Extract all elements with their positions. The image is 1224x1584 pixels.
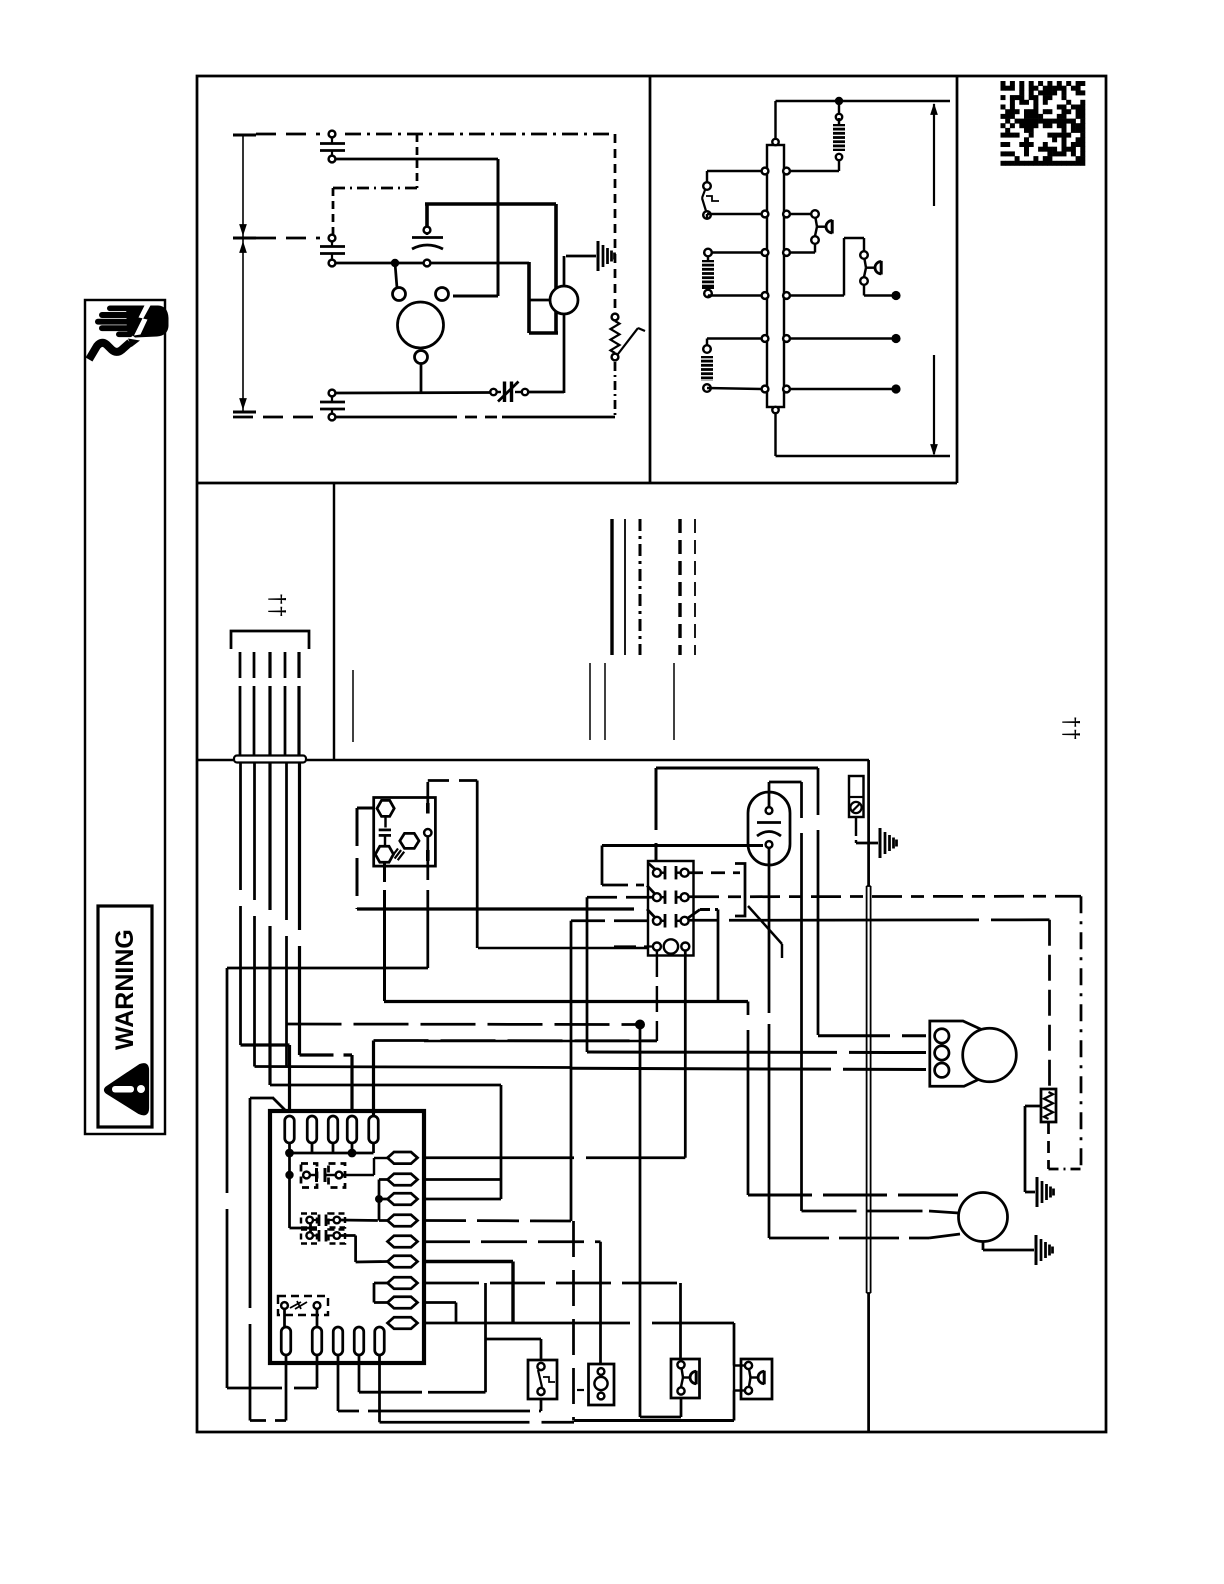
terminal T1 top — [329, 131, 336, 138]
dimension arrow lower (panel B) — [933, 355, 935, 454]
defrost stat drop (long) — [639, 1025, 642, 1418]
K2 lower output to hexagon 6 — [340, 1234, 356, 1237]
hexagon connector 8 — [388, 1297, 418, 1309]
field wiring dashed rail mid (L2) — [256, 237, 320, 240]
herm riser down to fan wire 2 — [800, 782, 803, 818]
legend sample: factory power solid thick — [610, 519, 613, 655]
contactor pole 3 — [653, 917, 661, 925]
pole2 left wire to compressor riser — [587, 896, 652, 899]
wire bundle collar — [234, 756, 306, 763]
pole2 right long dashed run — [689, 895, 1081, 898]
left branch: coil 2 — [707, 337, 761, 339]
wire bus top to L line — [774, 101, 776, 139]
switch A top riser — [540, 1339, 543, 1360]
T5 riser to low voltage dashed feed — [372, 1041, 375, 1117]
pole3 right stub to fan feed riser — [700, 908, 718, 911]
board terminal stadium T3 — [328, 1116, 338, 1143]
hexagon left bus 2-3-4 — [378, 1180, 381, 1221]
legend sample: field power dashed thick — [678, 519, 681, 655]
board bottom stadium B1 — [281, 1327, 291, 1355]
module pin circle right — [424, 829, 431, 836]
right wire row 6 — [790, 388, 893, 390]
dashed drop from module left — [356, 808, 359, 909]
compressor terminal box — [930, 1021, 988, 1086]
wire5 elbow to board T4 riser — [300, 1053, 353, 1056]
horizontal divider below middle band — [197, 759, 869, 761]
jumper to bottom terminals — [283, 1309, 286, 1327]
compressor mid riser — [586, 897, 589, 1052]
thermostat wires dashed (5) — [239, 652, 242, 695]
condenser fan motor circle — [959, 1193, 1008, 1242]
fan wire 3 — [769, 1237, 929, 1240]
wire4 branch dashed to defrost stat junction — [287, 1023, 639, 1026]
coil right drop to board hexagon 1 — [684, 951, 687, 1158]
WARNING label box — [98, 906, 152, 1127]
heater left tap wire — [1025, 1105, 1041, 1108]
relay K1 contact bars — [310, 1174, 317, 1176]
linkage actuator diagonal — [748, 906, 782, 944]
B3 wire to switch A — [337, 1355, 340, 1411]
pole3 left wire — [571, 919, 652, 922]
capacitor symbol on L1 lead — [320, 142, 345, 145]
drop to pole1 — [655, 768, 658, 830]
module left lead — [357, 807, 373, 810]
B1 wire to bottom left loop — [285, 1355, 288, 1421]
capillary top single — [867, 760, 870, 886]
switch C bottom riser — [680, 1398, 683, 1417]
contactor box — [648, 861, 694, 956]
hexagon connector 4 — [388, 1215, 418, 1227]
panel divider vertical between top-left and top-right panels — [649, 76, 652, 483]
dash-dot rail continuing right at top — [345, 133, 612, 136]
hexagon 8 wire — [424, 1301, 456, 1304]
board top-left corner diagonal entry — [273, 1098, 287, 1112]
board bottom stadium B4 — [354, 1327, 364, 1355]
compressor top wire — [818, 1034, 926, 1037]
contactor top right riser to compressor top — [817, 768, 820, 815]
junction node defrost stat — [635, 1020, 645, 1030]
defrost stat contacts on bottom rail — [490, 389, 496, 395]
wire riser to contactor coil — [478, 947, 648, 949]
hexagon 6 wire thick — [424, 1260, 513, 1263]
hexagon 9 long wire — [424, 1322, 630, 1325]
wire3 elbow to hexagon bus riser — [270, 1084, 501, 1087]
capacitor symbol on L2 lead — [320, 245, 345, 248]
middle band divider vertical — [333, 483, 335, 760]
relay K1 contact right cell — [329, 1164, 346, 1188]
data matrix code — [1001, 81, 1086, 166]
left branch: coil 1 — [708, 251, 761, 253]
wire T1-lead down to motor NE terminal — [497, 159, 500, 296]
switch C (high pressure) box — [671, 1359, 700, 1398]
legend column rule short — [352, 670, 354, 742]
B4 wire to riser — [358, 1355, 361, 1392]
horizontal divider below top panels — [197, 482, 957, 485]
ground symbol (heater) — [1036, 1177, 1039, 1207]
coil left wire dashed stub — [614, 945, 652, 947]
corner down to right dashed branch — [614, 134, 617, 314]
low voltage dashed feed wire — [374, 1039, 657, 1042]
fan ground lead — [982, 1242, 985, 1250]
field wiring dashed rail top (L1) — [256, 133, 320, 136]
right branch: pressure switch 1 — [790, 213, 815, 215]
ground symbol fan motor — [566, 255, 596, 258]
pole 3 arm — [647, 909, 655, 918]
fan motor (panel A) — [550, 286, 578, 314]
contactor coil — [653, 943, 661, 951]
thermostat wire bundle bracket — [231, 631, 309, 649]
fuse holder box — [849, 776, 864, 817]
thermostat wire 2 down — [253, 763, 256, 1067]
relay K1 contact left cell — [301, 1164, 317, 1188]
pole 1 arm — [648, 863, 656, 870]
defrost jumper box — [278, 1296, 328, 1315]
coil left drop to board bus — [656, 951, 658, 1041]
module edge pin ticks — [426, 803, 430, 814]
hexagon connector 5 — [388, 1236, 418, 1248]
junction node top — [835, 97, 843, 105]
dash-dot jumper L1 to mid terminal — [416, 134, 419, 188]
motor S terminal to bottom rail — [420, 363, 423, 393]
capillary double line — [866, 886, 868, 1293]
cap bottom lead down (fan wire 3 riser) — [768, 848, 771, 1013]
fuse circle with slash — [850, 802, 861, 813]
wire from T1 to motor run winding — [335, 158, 498, 161]
fan wire 1 — [747, 1002, 750, 1016]
pole 3 right arm — [688, 910, 700, 919]
K2 upper output to hexagon bus — [340, 1219, 378, 1222]
hexagon connector 2 — [388, 1174, 418, 1186]
cap top lead loop — [768, 792, 771, 807]
heater bottom dashed drop — [1047, 1122, 1050, 1169]
start/run capacitor (polarized) — [424, 227, 431, 234]
B5 wire bottom run — [378, 1355, 381, 1422]
pole3 right run to heater — [689, 918, 1050, 921]
right branch: wire with pressure switch 2 — [790, 294, 844, 296]
bus bottom pin and N line — [772, 407, 778, 413]
jumper cut symbol — [290, 1301, 307, 1309]
thermostat wire 5 down — [298, 763, 301, 1055]
board bottom stadium B5 — [375, 1327, 385, 1355]
run capacitor oval — [748, 792, 790, 865]
left loop riser — [249, 1098, 252, 1421]
hexagon 7 wire to switch C — [424, 1282, 681, 1285]
module capacitor symbol — [384, 816, 386, 827]
board bottom stadium B3 — [333, 1327, 343, 1355]
bus terminals right column — [783, 168, 790, 175]
wire defrost sensor loop — [227, 967, 428, 970]
contactor pole 2 — [653, 893, 661, 901]
hexagon 1 wire to contactor coil — [424, 1156, 685, 1159]
board terminal stadium T1 — [285, 1116, 295, 1143]
sensor top riser — [599, 1242, 602, 1364]
bottom rail right portion — [335, 416, 445, 419]
dash-dot loop corner right — [1080, 896, 1083, 1169]
wire coil bus to board corner — [424, 1040, 657, 1042]
switch C top riser — [679, 1283, 682, 1359]
contactor linkage bracket — [735, 864, 745, 917]
terminal T2 mid — [329, 235, 336, 242]
dash-dot down to bottom rail — [614, 362, 617, 417]
board bottom stadium B2 — [312, 1327, 322, 1355]
board terminal stadium T5 — [369, 1116, 379, 1143]
ground symbol (fan) — [1035, 1235, 1038, 1265]
heavy bottom run — [574, 1419, 734, 1422]
wire junction to motor start terminal — [395, 263, 397, 288]
dashed riser from hexagon4 run down — [572, 1221, 575, 1421]
compressor mid wire — [587, 1051, 926, 1055]
dimension arrow upper (panel B) — [933, 104, 935, 206]
hexagon connector 9 — [388, 1317, 418, 1329]
legend sample: factory control solid thin — [624, 519, 626, 655]
heavy run module to contactor row3 — [357, 907, 634, 910]
sensor left stub — [577, 1389, 588, 1391]
switch D top riser from hexagon9 run — [733, 1323, 736, 1366]
contactor top feed wire — [656, 767, 818, 770]
switch D bottom drop — [733, 1391, 736, 1421]
bus drop to relay K1 — [288, 1153, 291, 1175]
transformer coil right top — [836, 114, 842, 120]
bus drop to relay K2 — [288, 1175, 291, 1228]
hexagon connector 6 — [388, 1256, 418, 1268]
thermostat wire 3 down — [268, 763, 271, 1085]
warning triangle icon with exclamation — [105, 1064, 148, 1114]
terminal strip bus bar — [767, 145, 784, 407]
hexagon 4 wire to compressor riser — [424, 1219, 571, 1222]
legend column rules — [589, 663, 591, 740]
thermostat wire 4 down — [285, 763, 288, 1067]
electric shock hand icon — [89, 304, 169, 360]
compressor bottom wire — [571, 1068, 926, 1069]
compressor motor (panel A) — [398, 302, 444, 348]
heater top dashed riser — [1048, 920, 1051, 1089]
module hexagon pin 1 — [377, 800, 394, 816]
relay K2 lower row — [301, 1230, 317, 1244]
capacitor symbol bottom rail — [320, 401, 345, 404]
capillary bottom single — [867, 1293, 870, 1432]
fuse lead to ground — [855, 817, 857, 830]
board terminal stadium T2 — [307, 1116, 317, 1143]
switch D (low pressure) box — [741, 1359, 772, 1399]
thick riser hexagon6 to bottom run — [511, 1262, 514, 1324]
bottom rail wire — [329, 390, 336, 397]
switch D left bracket — [734, 1364, 745, 1366]
branch riser to switch A and B4 — [484, 1283, 487, 1392]
hexagon 2 wire — [424, 1178, 501, 1181]
pole1 right dashes to bracket — [689, 871, 740, 874]
left branch: limit switch — [707, 170, 761, 172]
switch A bottom riser — [540, 1399, 543, 1411]
hexagon 3 wire — [424, 1198, 501, 1201]
wire1 elbow to board T1 riser — [241, 1043, 290, 1046]
warning sidebar box — [85, 300, 165, 1134]
board input bus — [288, 1143, 291, 1153]
K1 output to hexagon 1 — [342, 1174, 374, 1176]
module resistor hatches — [392, 849, 405, 861]
wire from T2 to junction and run cap — [335, 262, 529, 265]
pressure sensor box (3 circles) — [589, 1364, 615, 1405]
board terminal stadium T4 — [347, 1116, 357, 1143]
module bottom pin lead — [383, 862, 386, 882]
junction node — [391, 259, 399, 267]
legend sample: dash-dot — [639, 519, 642, 655]
module hexagon pin 2 — [375, 846, 393, 862]
relay K2 upper row — [301, 1214, 317, 1228]
module hexagon pin 3 — [400, 833, 419, 848]
B2 wire to sensor loop — [316, 1355, 319, 1388]
svg-text:††: †† — [265, 593, 290, 617]
ground symbol (fuse) — [879, 828, 882, 858]
defrost control module box — [374, 798, 436, 867]
hexagon connector 1 — [388, 1152, 418, 1164]
pole 2 arm — [647, 886, 655, 895]
thick wire loop cap top to bus — [425, 204, 429, 227]
thermostat wire 1 down — [239, 763, 242, 1045]
wire2/4 long run to compressor riser — [255, 1067, 572, 1068]
compressor motor circle — [963, 1028, 1017, 1082]
outer frame border — [197, 76, 1106, 1432]
cap lower feed from contactor — [602, 844, 763, 847]
run cap to pole2 feed — [601, 846, 604, 886]
module right rail segments — [426, 782, 429, 803]
module top pin dashed to coil feed riser — [428, 779, 449, 782]
dimension line with ticks (panel A left) — [242, 135, 244, 412]
right wire row 5 — [790, 337, 893, 339]
hexagon 7-8 left link — [373, 1283, 376, 1303]
resistor with thermal switch right branch — [612, 314, 619, 321]
legend sample: field control dashed thin — [694, 519, 696, 655]
bus terminals left column — [762, 168, 769, 175]
compressor bottom riser (long) — [570, 921, 573, 1221]
dashed rail bottom left — [233, 416, 320, 419]
hexagon connector 3 — [388, 1193, 418, 1205]
svg-text:WARNING: WARNING — [111, 929, 139, 1050]
top-right panel right border — [956, 76, 959, 483]
switch A (defrost thermostat) box — [528, 1360, 557, 1399]
hexagon 5 wire to pressure switch — [424, 1240, 601, 1243]
heavy run module bottom to condenser fan riser — [384, 1000, 748, 1003]
fan wire 2 — [802, 1210, 930, 1213]
hexagon connector 7 — [388, 1277, 418, 1289]
contactor pole 1 — [653, 869, 661, 877]
control board outline — [270, 1111, 424, 1363]
crankcase heater resistor — [1041, 1089, 1056, 1122]
svg-text:††: †† — [1059, 716, 1084, 740]
thermostat wires solid into collar — [239, 695, 242, 755]
